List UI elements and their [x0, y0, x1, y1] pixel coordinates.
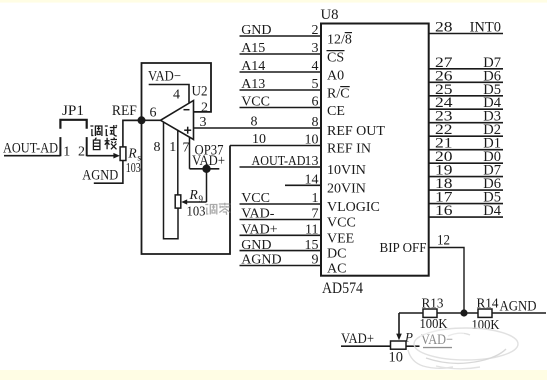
svg-text:U2: U2	[192, 84, 208, 100]
wire op-amp pin 7 down to VAD+ rail	[189, 137, 191, 169]
watermark haze	[408, 328, 518, 369]
U8 pin 3 (CS) wire and labels	[240, 53, 322, 55]
svg-text:AGND: AGND	[241, 253, 281, 268]
svg-text:VAD+: VAD+	[341, 331, 374, 347]
svg-text:5: 5	[312, 77, 319, 92]
potentiometer R9 body	[175, 195, 181, 208]
svg-text:14: 14	[305, 173, 319, 188]
svg-text:11: 11	[305, 223, 318, 238]
svg-text:A13: A13	[241, 77, 265, 92]
svg-text:A15: A15	[241, 41, 265, 56]
svg-text:1: 1	[63, 145, 70, 160]
svg-text:REF: REF	[112, 103, 137, 119]
svg-text:103: 103	[187, 205, 206, 220]
svg-text:CS: CS	[327, 51, 344, 66]
svg-text:A14: A14	[241, 59, 265, 74]
U8 pin 22 (D2) wire and labels	[429, 135, 503, 137]
U8 pin 16 (D4) wire and labels	[429, 216, 503, 218]
svg-text:VCC: VCC	[327, 216, 356, 231]
U8 pin 5 (R/C) wire and labels	[240, 89, 322, 91]
svg-text:12/8: 12/8	[327, 33, 352, 48]
wire AOUT-AD to jumper pin 1	[4, 155, 60, 157]
svg-text:JP1: JP1	[62, 103, 84, 119]
wire REF node left and down through Rs to AGND	[123, 120, 142, 147]
U8 pin 24 (D4) wire and labels	[429, 108, 503, 110]
svg-text:GND: GND	[241, 23, 271, 38]
svg-text:VAD+: VAD+	[241, 223, 278, 238]
svg-text:VCC: VCC	[241, 191, 270, 206]
svg-text:GND: GND	[241, 238, 271, 253]
svg-text:28: 28	[435, 20, 453, 36]
svg-text:AOUT-AD: AOUT-AD	[252, 154, 306, 169]
svg-text:20VIN: 20VIN	[327, 181, 366, 196]
node REF junction dot	[138, 116, 146, 124]
resistor R13 body	[423, 309, 437, 317]
svg-text:15: 15	[305, 238, 319, 253]
trim pot RP body	[391, 341, 407, 349]
U8 pin 14 (20VIN) wire and labels	[285, 184, 321, 186]
svg-text:VLOGIC: VLOGIC	[327, 200, 380, 215]
svg-text:R13: R13	[422, 297, 444, 312]
wire op-amp pin 1 down to null pot	[177, 130, 179, 195]
jumper JP1 pin posts	[59, 137, 61, 156]
svg-text:D4: D4	[483, 203, 501, 219]
wire op-amp pin 8 down to null pot	[164, 122, 179, 239]
svg-text:VAD−: VAD−	[148, 69, 181, 85]
svg-text:8: 8	[154, 140, 161, 155]
svg-text:7: 7	[312, 207, 319, 222]
svg-text:DC: DC	[327, 247, 346, 262]
svg-text:R: R	[127, 146, 137, 161]
svg-text:12: 12	[437, 233, 450, 249]
op-amp U2 OP37 triangle	[161, 101, 194, 140]
svg-text:3: 3	[312, 41, 319, 56]
svg-text:6: 6	[312, 95, 319, 110]
U8 pin 25 (D5) wire and labels	[429, 95, 503, 97]
U8 pin 17 (D5) wire and labels	[429, 203, 503, 205]
svg-text:1: 1	[312, 191, 319, 206]
U8 pin 9 (AC) wire and labels	[240, 265, 322, 267]
U8 pin 21 (D1) wire and labels	[429, 149, 503, 151]
wire rail down to trim pot RP wiper	[398, 313, 400, 335]
U8 pin 1 (VLOGIC) wire and labels	[240, 203, 322, 205]
U8 pin 19 (D7) wire and labels	[429, 176, 503, 178]
U8 pin 4 (A0) wire and labels	[240, 71, 322, 73]
node R13-R14 junction dot	[460, 309, 467, 316]
svg-text:U8: U8	[321, 7, 339, 23]
svg-text:R/C: R/C	[327, 87, 350, 102]
U8 pin 11 (VEE) wire and labels	[240, 234, 322, 236]
U8 pin 15 (DC) wire and labels	[240, 250, 322, 252]
svg-text:AD574: AD574	[322, 280, 363, 297]
U8 pin 6 (CE) wire and labels	[240, 107, 322, 109]
wire REF node down to lower routing box	[142, 120, 231, 254]
svg-text:AGND: AGND	[82, 168, 118, 184]
svg-text:AOUT-AD: AOUT-AD	[3, 140, 58, 156]
svg-text:CE: CE	[327, 104, 345, 119]
U8 pin 12 BIP OFF wire to offset network	[429, 248, 464, 314]
U8 pin 26 (D6) wire and labels	[429, 81, 503, 83]
svg-text:VAD-: VAD-	[241, 207, 275, 222]
U8 pin 7 (VCC) wire and labels	[240, 219, 322, 221]
svg-text:2: 2	[312, 23, 319, 38]
U8 pin 13 (10VIN) wire and labels	[240, 166, 322, 168]
net VAD+ rail under op-amp	[190, 168, 220, 170]
svg-text:7: 7	[183, 141, 190, 156]
svg-text:REF IN: REF IN	[327, 142, 371, 157]
wire VAD+ node down to R9 wiper	[206, 169, 208, 202]
Rs wiper arrow	[113, 153, 120, 159]
svg-text:2: 2	[201, 101, 208, 116]
svg-text:9: 9	[312, 253, 319, 268]
U8 pin 27 (D7) wire and labels	[429, 68, 503, 70]
op-amp minus sign	[184, 109, 190, 111]
U8 pin 2 (12/8) wire and labels	[240, 35, 322, 37]
svg-text:103: 103	[126, 160, 141, 175]
label tiaoshi zixiao (debug self-cal) hanzi	[90, 125, 117, 150]
wire trim pot right end toward VAD-	[406, 345, 420, 347]
svg-text:1: 1	[169, 140, 176, 155]
node VAD+ junction dot	[202, 165, 210, 173]
svg-text:9: 9	[199, 194, 204, 204]
wire jumper pin 2 to Rs wiper	[87, 155, 116, 157]
jumper JP1 shorting cap	[60, 120, 86, 129]
svg-text:10VIN: 10VIN	[327, 163, 366, 178]
label tiaoling (zero adjust) hanzi	[205, 203, 231, 215]
page bottom tint strip	[0, 370, 547, 380]
page top tint strip	[0, 0, 547, 3]
svg-text:VEE: VEE	[327, 231, 354, 246]
svg-text:13: 13	[305, 154, 319, 169]
feedback loop wire output to pin 2	[142, 63, 212, 120]
RP wiper arrow	[396, 334, 402, 341]
U8 pin 20 (D0) wire and labels	[429, 162, 503, 164]
U8 pin 23 (D3) wire and labels	[429, 122, 503, 124]
svg-text:P: P	[404, 330, 413, 345]
IC U8 AD574 body	[321, 24, 429, 276]
svg-text:INT0: INT0	[470, 20, 501, 36]
svg-text:16: 16	[435, 203, 453, 219]
wire REF node to op-amp output pin 6	[123, 119, 161, 121]
svg-text:AGND: AGND	[500, 299, 537, 315]
svg-text:BIP OFF: BIP OFF	[380, 241, 427, 256]
svg-text:10: 10	[252, 132, 266, 147]
op-amp plus sign	[184, 129, 191, 131]
svg-text:8: 8	[251, 115, 258, 130]
svg-text:A0: A0	[327, 69, 344, 84]
svg-text:REF OUT: REF OUT	[327, 124, 385, 139]
svg-text:R: R	[189, 187, 199, 202]
svg-text:10: 10	[389, 350, 404, 366]
wire REF IN net to U8 pin 10	[230, 145, 321, 147]
wire op-amp pin 3 to U8 pin 8 (REF OUT)	[194, 127, 322, 129]
svg-text:R14: R14	[477, 297, 499, 312]
U8 pin 18 (D6) wire and labels	[429, 189, 503, 191]
wire VAD+ to trim pot left end	[341, 345, 391, 347]
resistor R14 body	[478, 309, 492, 317]
potentiometer Rs body	[120, 147, 126, 161]
svg-text:4: 4	[312, 59, 319, 74]
wire bipolar offset rail R13 R14 to AGND	[399, 312, 546, 314]
U8 pin 28 (INT0) wire and labels	[429, 33, 503, 35]
svg-text:6: 6	[150, 106, 157, 121]
svg-text:VCC: VCC	[241, 95, 270, 110]
svg-text:AC: AC	[327, 262, 346, 277]
svg-text:2: 2	[78, 145, 85, 160]
potentiometer R9 wiper arrow	[185, 201, 207, 203]
wire VAD- to op-amp pin 4	[149, 85, 189, 103]
svg-text:4: 4	[173, 88, 180, 103]
